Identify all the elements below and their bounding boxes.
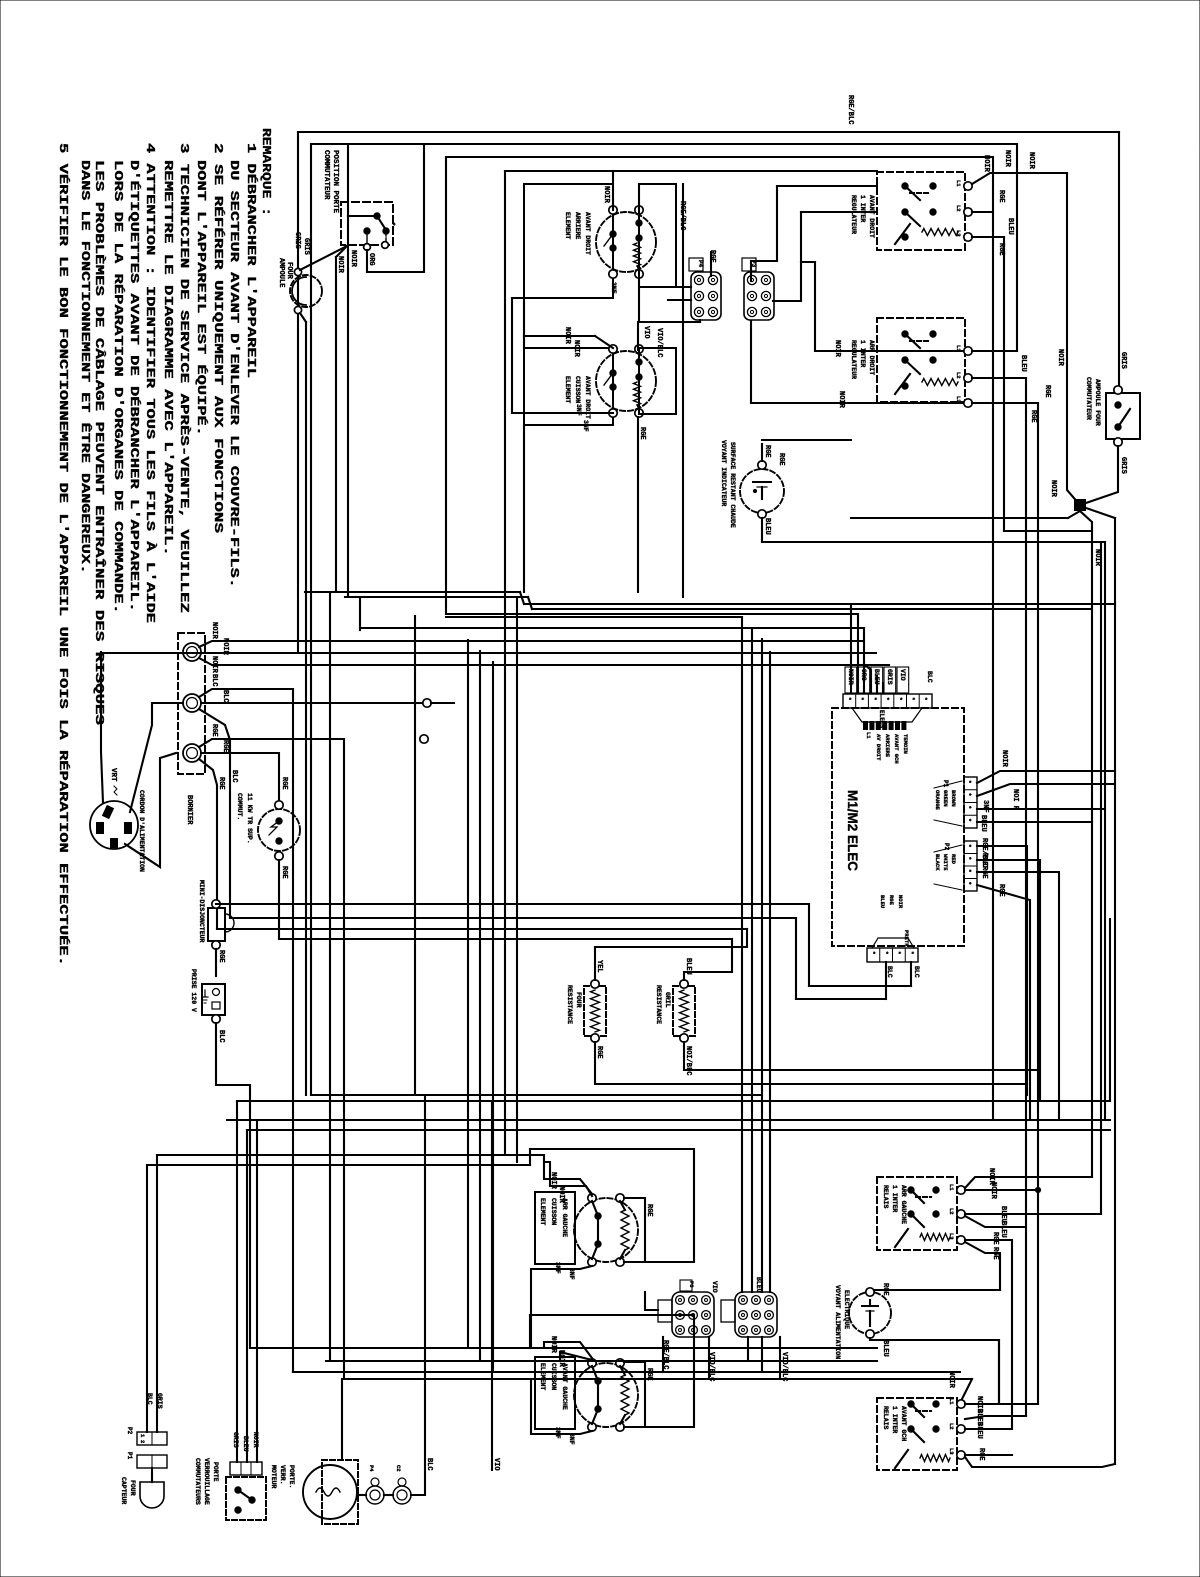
svg-text:NOIR: NOIR xyxy=(572,340,580,358)
svg-text:BLC: BLC xyxy=(230,770,238,783)
wire element1 bottom-left loop xyxy=(512,297,613,299)
svg-text:BROWN: BROWN xyxy=(950,790,957,807)
element right inner box xyxy=(639,184,676,287)
wires BLC from terminal 2 xyxy=(199,689,293,697)
svg-text:*: * xyxy=(965,806,972,810)
svg-text:PRISE 120 V: PRISE 120 V xyxy=(190,969,197,1012)
resistor RESISTANCE GRIL xyxy=(673,986,695,1036)
wire bus 592 xyxy=(305,591,520,593)
wire bus 628 xyxy=(360,627,864,629)
wire element1 right RGE/BLC drop xyxy=(682,184,684,322)
wire NOIR drop to junction xyxy=(1067,173,1080,505)
relay A contacts xyxy=(902,183,908,189)
wire bottom bus 1095 xyxy=(311,1094,762,1096)
label P6 tag xyxy=(680,1280,692,1291)
wire bottom bundle 1372 xyxy=(293,1371,960,1373)
svg-text:CAPTEUR: CAPTEUR xyxy=(120,1477,127,1504)
wire light top RGE xyxy=(761,444,763,461)
wires element A left staircase xyxy=(544,1155,592,1194)
wire bottom bus 1120 xyxy=(227,1119,1110,1121)
wire VIO vertical xyxy=(491,1101,493,1470)
wire door switch NOIR down xyxy=(335,257,337,592)
wire light bottom BLEU xyxy=(761,518,763,542)
wires element B bottom 3NF xyxy=(531,1379,592,1434)
connector P5 tab xyxy=(658,1300,672,1322)
M1 dip row xyxy=(863,721,868,730)
svg-text:P4: P4 xyxy=(368,1465,375,1472)
wire bus 597 xyxy=(345,596,528,598)
M1 bottom trapezoid xyxy=(872,938,914,948)
svg-text:NOIR: NOIR xyxy=(1093,549,1101,567)
svg-text:3NF: 3NF xyxy=(554,1262,561,1274)
svg-text:NOIR: NOIR xyxy=(336,256,344,274)
svg-text:CUISSON: CUISSON xyxy=(550,1198,557,1225)
svg-text:RGE: RGE xyxy=(217,777,225,790)
svg-text:C2: C2 xyxy=(395,1465,402,1472)
door switch COMMUTATEUR POSITION PORTE box xyxy=(341,202,393,245)
wire bus 597 jog down xyxy=(528,597,532,609)
svg-text:M1/M2 ELEC: M1/M2 ELEC xyxy=(845,790,860,871)
svg-text:P6: P6 xyxy=(688,1281,695,1288)
relay D RELAIS AVANT GAUCHE box xyxy=(877,1398,957,1470)
svg-text:5 VÉRIFIER LE BON FONCTIONNEM: 5 VÉRIFIER LE BON FONCTIONNEMENT DE L'AP… xyxy=(56,143,70,966)
wire M1 bottom BLC 2 xyxy=(910,962,912,986)
svg-text:NOIR: NOIR xyxy=(563,327,571,345)
wire staircase into M1 connector xyxy=(850,604,852,693)
svg-text:VOYANT ALIMENTATION: VOYANT ALIMENTATION xyxy=(834,1285,841,1359)
wire voyant bottom BLEU xyxy=(870,1338,999,1404)
svg-text:PORTE.: PORTE. xyxy=(288,1465,295,1488)
wire bottom bundle 1361 xyxy=(326,1360,877,1362)
wire RGE drop xyxy=(199,759,217,929)
frame F2 right drop xyxy=(1016,144,1018,351)
wire vertical 770 xyxy=(769,652,771,1292)
svg-text:BLEU: BLEU xyxy=(1006,218,1014,235)
wire element A RGE vertical xyxy=(624,1198,645,1262)
svg-text:FOUR: FOUR xyxy=(129,1480,136,1496)
svg-text:RGE: RGE xyxy=(991,1232,999,1245)
wire res gril top xyxy=(684,972,732,980)
wire res four bottom xyxy=(595,1042,1026,1084)
svg-text:RGE: RGE xyxy=(888,895,895,906)
svg-text:L2: L2 xyxy=(955,205,962,212)
terminal block BORNIER dashed box xyxy=(178,633,205,774)
svg-text:COMMUTATEUR: COMMUTATEUR xyxy=(322,150,330,200)
wire door switch NOIR2 down xyxy=(347,246,349,597)
frame F2 top xyxy=(311,143,1017,145)
wire relay C L1 NOIR right xyxy=(965,1189,1038,1191)
relay C RELAIS ARR GAUCHE box xyxy=(877,1177,957,1250)
svg-text:BLC: BLC xyxy=(146,1393,153,1405)
svg-text:3NF: 3NF xyxy=(568,1433,575,1445)
svg-text:NOIR: NOIR xyxy=(557,1350,565,1368)
svg-text:NOIR: NOIR xyxy=(947,1371,955,1389)
6-pin connector P4 xyxy=(691,272,721,320)
wire junction diag to 1115 xyxy=(1086,508,1115,518)
svg-text:GRIS: GRIS xyxy=(302,238,310,255)
svg-text:L3: L3 xyxy=(955,230,962,237)
svg-text:COMMUTATEUR: COMMUTATEUR xyxy=(1085,377,1092,420)
svg-text:NOIR: NOIR xyxy=(1049,480,1057,498)
connector P6 tab xyxy=(721,1300,735,1322)
svg-text:RGE: RGE xyxy=(997,190,1005,203)
svg-text:VIO/BLC: VIO/BLC xyxy=(655,328,663,357)
relay D terminals xyxy=(957,1400,965,1408)
svg-text:L3: L3 xyxy=(948,1233,955,1240)
wire element B RGE vertical xyxy=(624,1362,645,1427)
svg-text:P1: P1 xyxy=(942,780,949,788)
ground symbol xyxy=(204,990,206,997)
svg-text:PORTE: PORTE xyxy=(212,1462,219,1482)
svg-text:DU SECTEUR AVANT D'ENLEVER LE: DU SECTEUR AVANT D'ENLEVER LE COUVRE-FIL… xyxy=(227,160,240,588)
wire vertical 306 from lamp xyxy=(305,322,307,1095)
svg-text:RGE: RGE xyxy=(280,866,288,879)
wire junction diag to lamp xyxy=(300,246,347,270)
wire bus 604 xyxy=(524,603,1115,605)
wire relay B L3 RGE xyxy=(972,402,1038,404)
wire breaker bottom down xyxy=(278,860,280,939)
svg-text:POSITION PORTE: POSITION PORTE xyxy=(331,150,339,214)
terminal circles end BLC/RGE lines xyxy=(423,699,431,707)
svg-text:BLC: BLC xyxy=(210,674,218,687)
svg-text:NOI/BLC: NOI/BLC xyxy=(684,1046,692,1075)
svg-text:GRIS: GRIS xyxy=(293,232,301,249)
svg-text:LORS DE LA RÉPARATION D'ORGANE: LORS DE LA RÉPARATION D'ORGANES DE COMMA… xyxy=(111,160,125,614)
svg-text:RGE: RGE xyxy=(763,445,771,458)
svg-text:*: * xyxy=(896,697,903,701)
wire bus mid 939 xyxy=(279,938,732,940)
svg-text:AVANT DROIT: AVANT DROIT xyxy=(584,212,591,255)
svg-text:L1: L1 xyxy=(865,732,872,739)
svg-text:AVANT GAUCHE: AVANT GAUCHE xyxy=(561,1363,568,1410)
wire bus mid 904 xyxy=(216,903,809,905)
wire relay B L3 feed from conn P3 xyxy=(750,321,752,403)
wire M1 conn2 pin4 RGE diag xyxy=(977,885,1030,1120)
wire relay C L3 RGE xyxy=(965,1240,1012,1429)
svg-text:CORDON D'ALIMENTATION: CORDON D'ALIMENTATION xyxy=(138,790,145,872)
svg-text:*: * xyxy=(907,951,914,955)
cooktop element control box xyxy=(524,348,613,425)
wire 542 horizontal BLEU to right xyxy=(762,541,1105,543)
svg-text:BLEU: BLEU xyxy=(1019,355,1027,372)
svg-text:GRIS: GRIS xyxy=(1119,352,1127,369)
wire vertical 344 (RGE) xyxy=(343,739,345,1379)
svg-text:L1: L1 xyxy=(948,1398,955,1405)
svg-text:*: * xyxy=(965,818,972,822)
svg-text:REMETTRE LE DIAGRAMME AVEC L'A: REMETTRE LE DIAGRAMME AVEC L'APPAREIL. xyxy=(161,160,174,556)
wire 986 to M1 bottom xyxy=(809,985,911,987)
relay B REGULATEUR AVANT GAUCHE box xyxy=(877,318,965,402)
relay A terminals xyxy=(964,182,972,190)
svg-text:*: * xyxy=(921,697,928,701)
frame F2 left (long) xyxy=(310,144,312,1095)
svg-text:2 SE RÉFÉRER UNIQUEMENT AUX F: 2 SE RÉFÉRER UNIQUEMENT AUX FONCTIONS xyxy=(211,143,225,533)
svg-text:VIO: VIO xyxy=(899,669,906,681)
svg-text:VIO/BLC: VIO/BLC xyxy=(780,1352,788,1381)
wire relay C L2 BLEU xyxy=(965,1213,1101,1215)
svg-text:TEMOIN: TEMOIN xyxy=(902,734,909,754)
relay C terminals xyxy=(957,1186,965,1194)
svg-text:RGE: RGE xyxy=(1029,410,1037,423)
svg-text:AVANT DROIT: AVANT DROIT xyxy=(868,195,875,238)
wire M1 conn2 pin1 RGE/BLC xyxy=(977,846,1027,1095)
power cord plug CORDON D'ALIMENTATION xyxy=(90,801,138,849)
svg-text:3NF: 3NF xyxy=(610,282,617,294)
svg-text:*: * xyxy=(965,780,972,784)
wire vertical 809 jog xyxy=(808,904,810,986)
svg-text:RGE: RGE xyxy=(217,950,225,963)
svg-text:AVANT GCH: AVANT GCH xyxy=(900,1406,907,1441)
svg-text:GRIS: GRIS xyxy=(1119,457,1127,474)
svg-text:ELEMENT: ELEMENT xyxy=(564,212,571,239)
svg-text:VIO: VIO xyxy=(642,326,650,339)
svg-text:RGE: RGE xyxy=(638,427,646,440)
wire element2 bottom-right RGE down xyxy=(637,417,639,592)
svg-text:*: * xyxy=(909,697,916,701)
svg-text:REGULATEUR: REGULATEUR xyxy=(850,195,857,234)
svg-text:DANS LE FONCTIONNEMENT ET ÊTRE: DANS LE FONCTIONNEMENT ET ÊTRE DANGEREUX… xyxy=(78,160,92,574)
svg-text:RGE: RGE xyxy=(645,1204,653,1217)
resistor RESISTANCE FOUR xyxy=(584,986,606,1036)
wire vertical 796 jog xyxy=(795,918,797,999)
svg-text:RGE: RGE xyxy=(980,866,988,879)
cooktop element control box xyxy=(524,184,613,298)
door lock motor MOTEUR VERR PORTE xyxy=(303,1465,357,1519)
frame F4 top xyxy=(505,170,877,172)
wire relay B L2 BLEU xyxy=(972,377,1026,379)
svg-text:BLC: BLC xyxy=(926,671,933,683)
svg-text:GRIL: GRIL xyxy=(664,992,671,1008)
frame F1 top xyxy=(298,131,1119,133)
wire relay A L2 feed via conn P3 xyxy=(801,211,877,213)
relay C contacts xyxy=(908,1187,914,1193)
svg-text:*: * xyxy=(387,222,395,226)
wire M1 conn2 pin3 RGE xyxy=(977,872,1059,1120)
labels above M1 top connector (boxed) xyxy=(845,667,857,693)
svg-text:NOIR: NOIR xyxy=(833,340,841,358)
6-pin connector P3 xyxy=(744,272,774,320)
svg-text:L1: L1 xyxy=(955,180,962,187)
svg-text:RELAIS: RELAIS xyxy=(882,1406,889,1430)
svg-text:L2: L2 xyxy=(948,1423,955,1430)
frame F3 left drop xyxy=(445,157,447,614)
svg-text:FOUR: FOUR xyxy=(285,262,293,280)
svg-text:RGE: RGE xyxy=(881,1283,889,1296)
svg-text:*: * xyxy=(845,697,852,701)
circuit breaker COUPE-CIRCUIT 11KW TR SUP xyxy=(258,809,300,851)
wire relay A L1 feed via conn P3 xyxy=(777,185,877,187)
wires conn P4 left stubs xyxy=(668,286,691,288)
svg-text:P2: P2 xyxy=(126,1427,133,1435)
wire vertical 994 xyxy=(992,518,994,1120)
svg-text:VIO: VIO xyxy=(711,1281,718,1293)
wire vertical 1110 segment xyxy=(1109,919,1111,1101)
svg-text:BLEU: BLEU xyxy=(755,1277,762,1293)
wire vertical 415 xyxy=(414,616,416,1095)
wire 999 to M1 bottom xyxy=(796,998,886,1000)
svg-text:NOI R: NOI R xyxy=(1011,789,1019,811)
wire lamp switch bottom to junction xyxy=(1080,446,1118,505)
svg-text:BLEU: BLEU xyxy=(873,669,880,685)
wire vertical 1115 frame right xyxy=(1114,518,1116,1464)
svg-text:3 TECHNICIEN DE SERVICE APRÈS: 3 TECHNICIEN DE SERVICE APRÈS-VENTE, VEU… xyxy=(177,143,191,613)
svg-text:COMMUT.: COMMUT. xyxy=(236,793,243,820)
wire bus 614 (F3) xyxy=(446,613,858,615)
wire VIO/BLC down xyxy=(708,1337,710,1379)
oven element box xyxy=(535,1192,575,1264)
svg-text:RGE: RGE xyxy=(1043,385,1051,398)
svg-text:L2: L2 xyxy=(955,372,962,379)
wire relay D L2 BLEU xyxy=(965,1428,1012,1430)
svg-text:1 INTER: 1 INTER xyxy=(891,1185,898,1212)
door switch contacts xyxy=(348,215,376,217)
wires RGE from terminal 3 xyxy=(199,739,344,747)
wires NOIR from terminal 1 xyxy=(199,641,863,647)
wire element2 top-right junction to 322 xyxy=(637,322,639,350)
svg-text:L1: L1 xyxy=(955,345,962,352)
svg-text:NOIR: NOIR xyxy=(210,622,218,640)
frame F1 right (to oven lamp switch) xyxy=(1118,132,1120,390)
svg-text:L3: L3 xyxy=(955,396,962,403)
svg-text:BLEU: BLEU xyxy=(975,1422,983,1439)
svg-text:SURFACE RESTANT CHAUDE: SURFACE RESTANT CHAUDE xyxy=(729,442,736,528)
element right inner box xyxy=(639,348,676,414)
wire M1 pin2 NOIR xyxy=(977,784,1115,796)
svg-text:BLC: BLC xyxy=(217,1030,225,1043)
svg-text:2: 2 xyxy=(139,1440,146,1443)
svg-text:RED: RED xyxy=(950,854,957,865)
wires element A bottom 3NF xyxy=(531,1266,592,1348)
svg-text:MINI-DISJONCTEUR: MINI-DISJONCTEUR xyxy=(198,880,205,943)
wires conn P6 from center verticals xyxy=(741,1291,743,1293)
wire relay C L1 NOIR up xyxy=(965,1177,1092,1188)
wire bus mid 918 xyxy=(230,917,796,919)
relay D contacts xyxy=(908,1401,914,1407)
M1 top connector strip xyxy=(843,694,932,708)
svg-text:VERROUILLAGE: VERROUILLAGE xyxy=(203,1458,210,1505)
svg-text:RGE: RGE xyxy=(595,1046,603,1059)
wire oven lamp bottom diag xyxy=(300,313,306,322)
wire vertical 512 xyxy=(511,298,513,413)
wire vertical 424 frame stub xyxy=(423,144,425,272)
svg-text:FOUR: FOUR xyxy=(575,992,582,1008)
wire bus 630 left hook xyxy=(359,597,361,630)
capteur four sensor bulb xyxy=(140,1482,164,1508)
wire M1 conn2 pin2 RGE xyxy=(977,860,1040,1101)
junction NOIR (filled square) xyxy=(1074,499,1086,511)
9-pin connector P5 xyxy=(672,1292,714,1337)
wire M1 bottom BLC 1 xyxy=(885,962,887,999)
wire vertical 517 xyxy=(516,597,518,1162)
wire bus 592 jog down xyxy=(520,592,524,604)
svg-text:GREEN: GREEN xyxy=(942,790,949,807)
wires door lock up xyxy=(236,1101,238,1462)
svg-text:*: * xyxy=(965,793,972,797)
wire 305 336 motor links xyxy=(384,1494,393,1496)
svg-text:L2: L2 xyxy=(948,1208,955,1215)
M1 right connector 2 xyxy=(964,841,977,891)
svg-text:L3: L3 xyxy=(948,1448,955,1455)
svg-text:NOIR: NOIR xyxy=(989,1182,997,1200)
svg-text:ELECTRIQUE: ELECTRIQUE xyxy=(843,1290,850,1329)
svg-text:3NF: 3NF xyxy=(554,1427,561,1439)
svg-text:NOIR: NOIR xyxy=(1003,150,1011,168)
power indicator VOYANT ALIMENTATION ELECTRIQUE xyxy=(849,1292,891,1334)
svg-text:ARRIERE: ARRIERE xyxy=(574,212,581,239)
wire bottom bundle 1379 xyxy=(346,1378,972,1380)
svg-text:P1: P1 xyxy=(126,1452,133,1460)
wire junction to 518 line xyxy=(1068,511,1080,518)
wire relay A L1 NOIR xyxy=(972,173,1067,184)
wire relay B L1 feed staircase xyxy=(801,261,815,263)
svg-text:AVANT GCH: AVANT GCH xyxy=(893,734,900,764)
svg-text:GRIS: GRIS xyxy=(156,1393,163,1409)
frame F4 left drop (long) xyxy=(504,171,506,1155)
wire element1 top right stub xyxy=(638,184,640,210)
svg-text:1 INTER: 1 INTER xyxy=(891,1406,898,1433)
mini circuit breaker MINI-DISJONCTEUR xyxy=(208,908,225,941)
svg-text:NOIR: NOIR xyxy=(1027,152,1035,170)
svg-text:*: * xyxy=(965,882,972,886)
wire M1 pin3 3NF xyxy=(977,808,1105,810)
svg-text:*: * xyxy=(965,857,972,861)
svg-text:BLEU: BLEU xyxy=(879,895,886,908)
svg-text:1 DÉBRANCHER L'APPAREIL: 1 DÉBRANCHER L'APPAREIL xyxy=(244,143,258,378)
svg-text:COMMUTATEURS: COMMUTATEURS xyxy=(194,1458,201,1505)
svg-text:*: * xyxy=(882,951,889,955)
wire bus 609 xyxy=(532,608,1090,610)
svg-text:DONT L'APPAREIL EST ÉQUIPÉ.: DONT L'APPAREIL EST ÉQUIPÉ. xyxy=(194,160,208,436)
wire element1 bottom-right to 322 xyxy=(638,278,640,322)
connector P2 (capteur) xyxy=(137,1432,167,1445)
svg-text:RGE: RGE xyxy=(997,243,1005,256)
wire vertical 1105 down xyxy=(1104,542,1106,1120)
wire 250 down to bottom bundle xyxy=(249,1085,251,1348)
cooktop element (dashed circle with resistors) xyxy=(596,351,656,411)
svg-text:YEL: YEL xyxy=(595,960,603,973)
svg-text:CUISSON: CUISSON xyxy=(574,376,581,403)
oven element box xyxy=(535,1357,575,1429)
svg-text:NOIR: NOIR xyxy=(847,669,854,685)
relay A resistor xyxy=(922,229,958,236)
svg-text:BLEU: BLEU xyxy=(979,815,987,832)
svg-text:BLC: BLC xyxy=(221,690,229,703)
wire bus mid 929 xyxy=(217,928,747,930)
oven lamp AMPOULE FOUR xyxy=(290,275,322,307)
svg-text:ARRIERE: ARRIERE xyxy=(884,734,891,758)
wire M1 pin1 NOIR xyxy=(977,771,1115,783)
wire ORG horizontal xyxy=(367,271,424,273)
wire vertical 742 xyxy=(741,617,743,1292)
wire relay A L3 xyxy=(972,236,1004,238)
wire vertical 752 xyxy=(751,628,753,1292)
svg-text:RGE: RGE xyxy=(977,1448,985,1461)
wire M1 pin4 BLEU xyxy=(977,821,1092,823)
svg-text:ELEMENT: ELEMENT xyxy=(564,376,571,403)
M1 right connector 1 xyxy=(964,777,977,828)
terminal N BLC xyxy=(183,694,201,712)
surface indicator light VOYANT xyxy=(740,469,784,513)
svg-text:NOIR: NOIR xyxy=(837,391,845,409)
oven element (dashed circle) xyxy=(574,1363,638,1427)
svg-text:RELAIS: RELAIS xyxy=(882,1185,889,1209)
wire relay D L1 NOIR xyxy=(965,1403,1038,1405)
svg-text:VRT: VRT xyxy=(109,768,117,782)
wire motor top up xyxy=(341,1379,343,1460)
wire vertical 732 jog xyxy=(731,939,733,972)
wires element B left staircase xyxy=(544,1342,592,1358)
control board M1/M2 ELEC dashed box xyxy=(832,708,964,946)
